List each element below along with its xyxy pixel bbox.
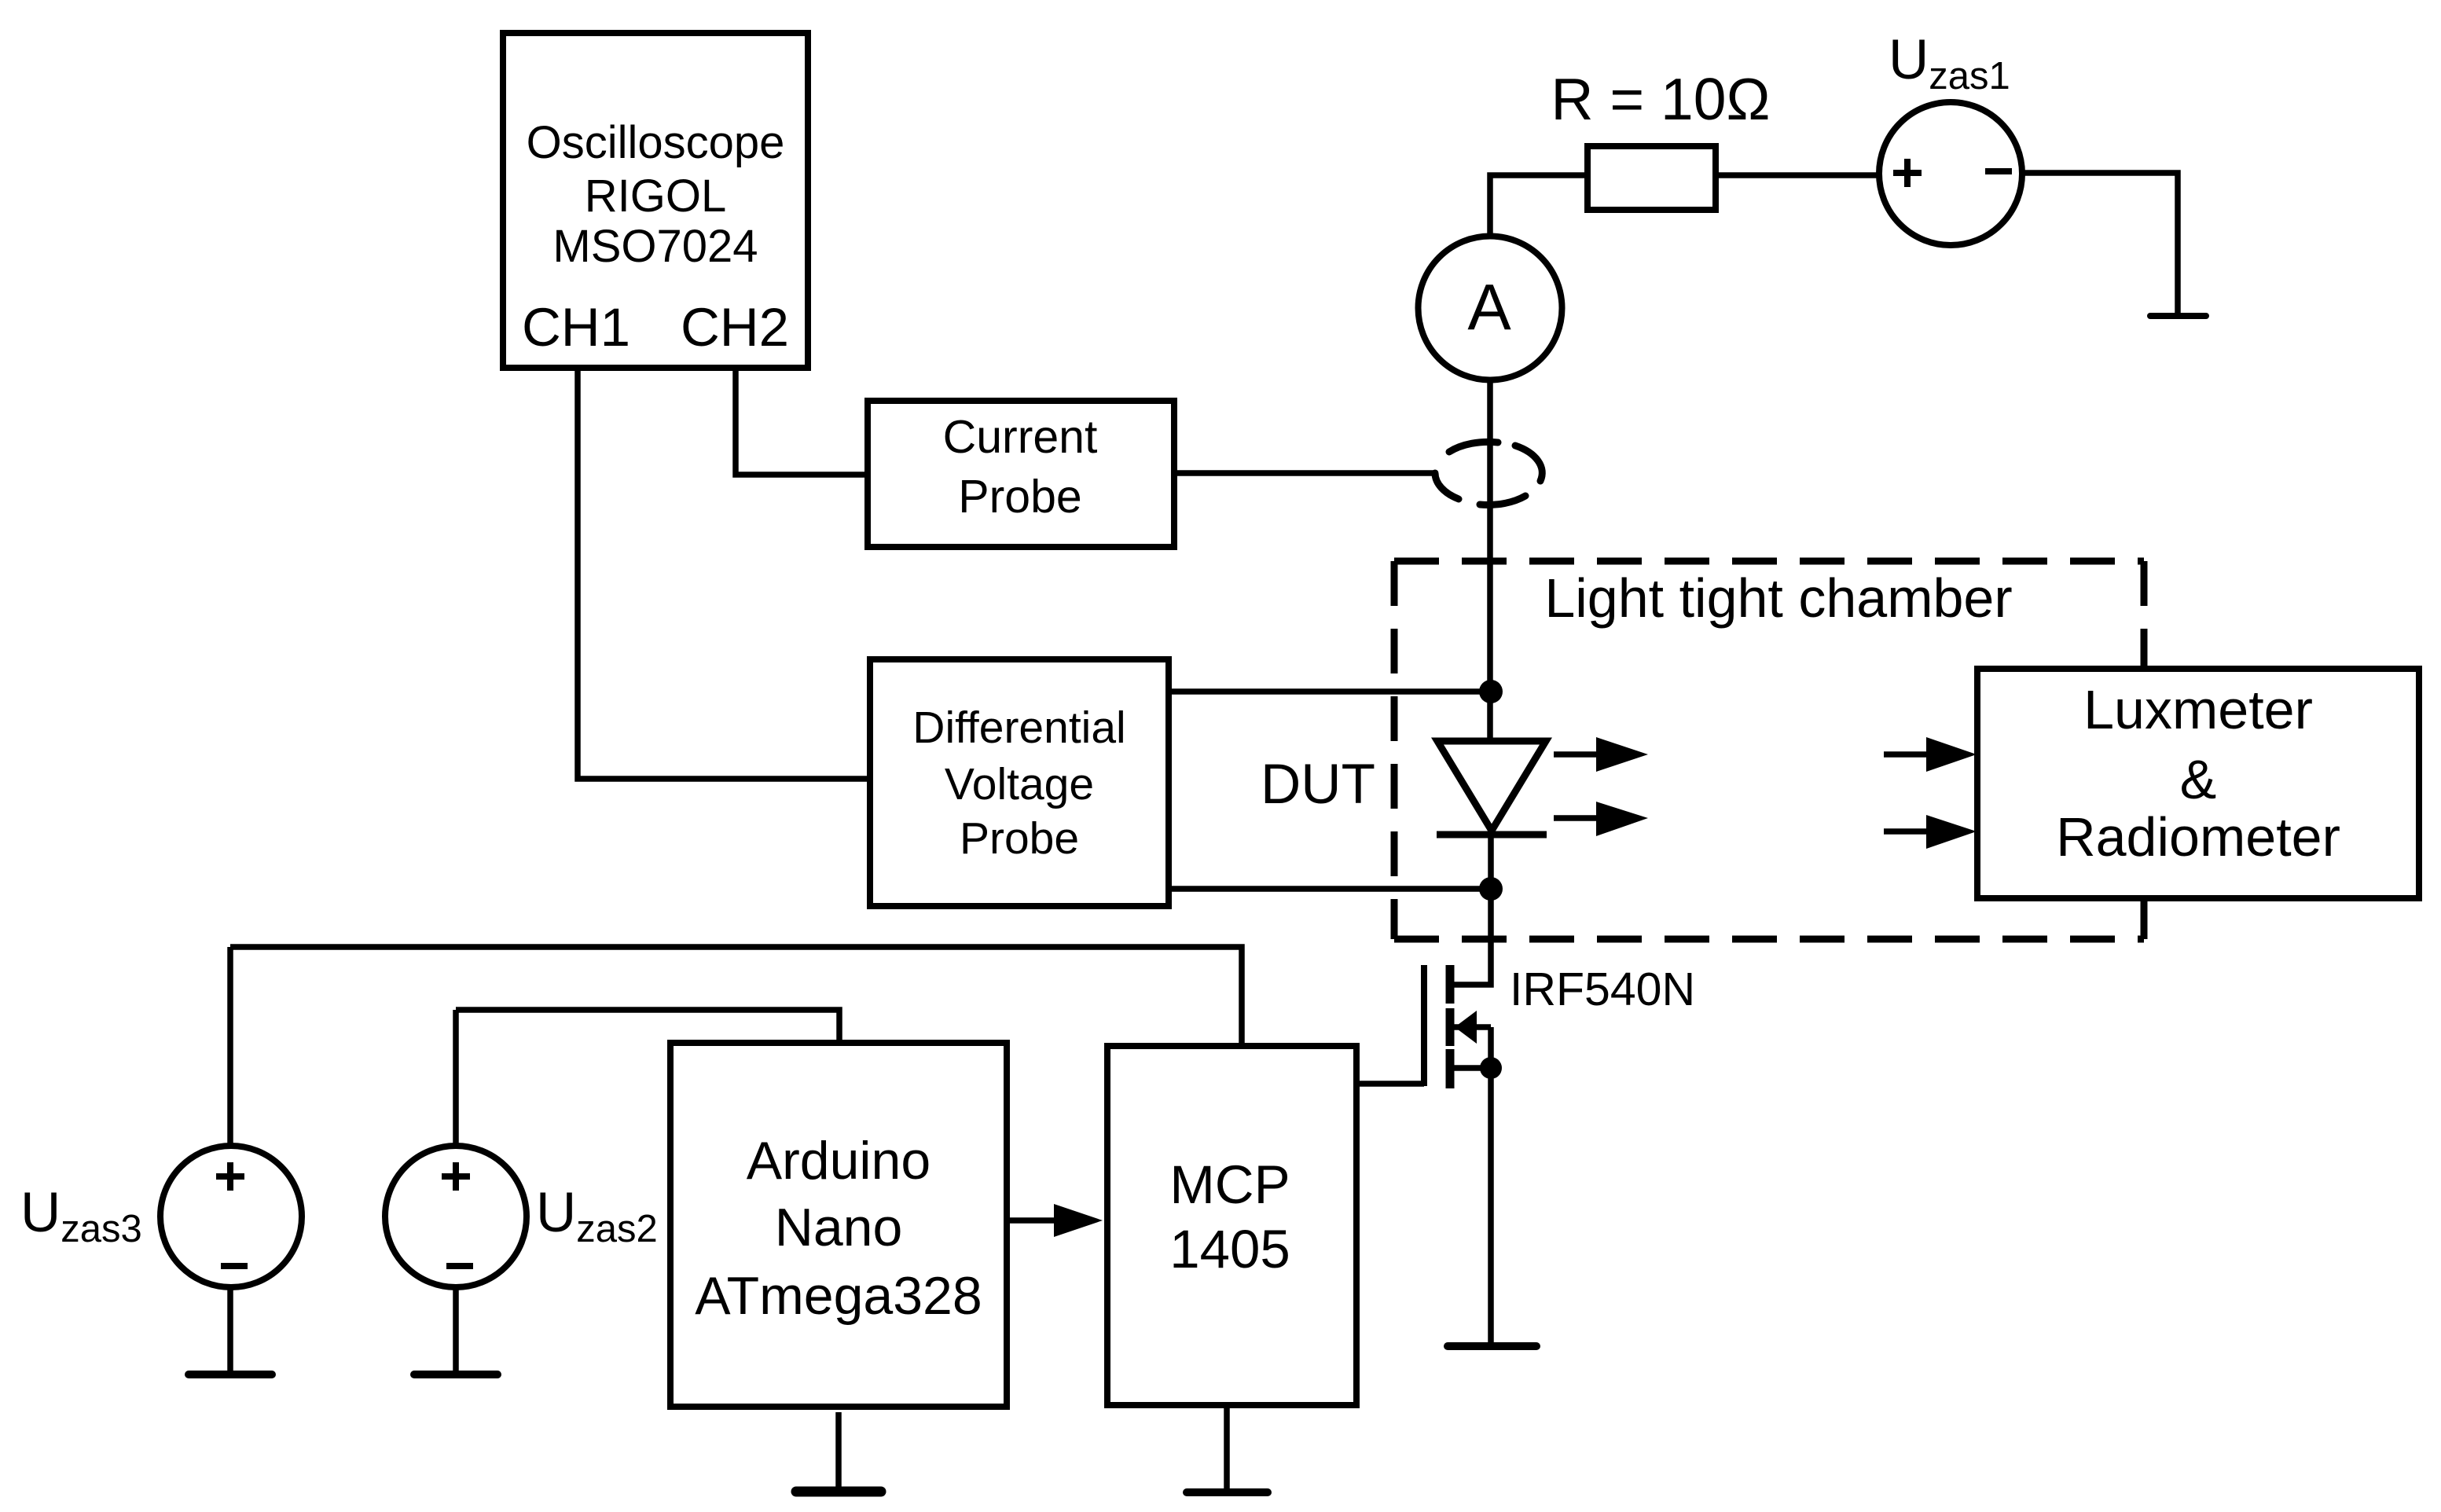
- svg-text:ATmega328: ATmega328: [695, 1266, 982, 1326]
- svg-text:R = 10Ω: R = 10Ω: [1551, 66, 1770, 132]
- svg-text:CH2: CH2: [681, 297, 789, 358]
- svg-text:CH1: CH1: [522, 297, 630, 358]
- svg-text:Arduino: Arduino: [747, 1131, 931, 1191]
- svg-text:DUT: DUT: [1261, 754, 1375, 816]
- svg-text:Probe: Probe: [960, 813, 1079, 864]
- svg-text:Current: Current: [943, 411, 1098, 463]
- svg-text:Nano: Nano: [775, 1198, 903, 1257]
- svg-text:A: A: [1467, 270, 1511, 343]
- svg-text:Radiometer: Radiometer: [2056, 806, 2340, 868]
- svg-text:IRF540N: IRF540N: [1510, 963, 1695, 1015]
- svg-text:Voltage: Voltage: [945, 759, 1094, 809]
- svg-text:&: &: [2180, 749, 2217, 810]
- svg-text:RIGOL: RIGOL: [585, 171, 727, 222]
- svg-text:Probe: Probe: [958, 471, 1081, 523]
- svg-text:Oscilloscope: Oscilloscope: [527, 117, 785, 168]
- svg-text:Differential: Differential: [912, 703, 1125, 753]
- svg-text:MSO7024: MSO7024: [552, 221, 758, 272]
- svg-text:Light tight chamber: Light tight chamber: [1544, 567, 2012, 629]
- svg-text:MCP: MCP: [1169, 1154, 1290, 1215]
- svg-text:Luxmeter: Luxmeter: [2083, 679, 2313, 740]
- svg-text:1405: 1405: [1169, 1219, 1290, 1279]
